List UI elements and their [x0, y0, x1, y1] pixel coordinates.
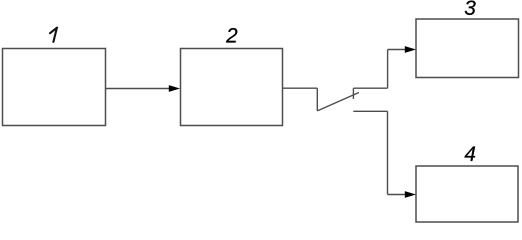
label 1: [50, 28, 57, 42]
arrowhead into block 4: [405, 191, 416, 198]
arrowhead into block 3: [405, 46, 416, 53]
wire: horizontal into block 4: [388, 194, 407, 196]
arrowhead into block 2: [169, 85, 180, 92]
wire: vertical drop to switch pivot: [316, 88, 318, 111]
switch blade: [317, 93, 359, 111]
svg-text:3: 3: [464, 0, 476, 20]
block 4: [416, 166, 518, 222]
switch top contact stub: [352, 88, 354, 99]
wire: horizontal into block 3: [388, 49, 406, 51]
svg-text:2: 2: [225, 24, 238, 47]
wire: block 2 output (pole feed): [283, 87, 318, 89]
svg-text:4: 4: [464, 143, 476, 166]
block 3: [416, 19, 519, 78]
wire: top contact horizontal: [353, 87, 387, 89]
wire: vertical up toward block 3: [387, 50, 389, 89]
wire: block 1 output to block 2: [106, 88, 171, 90]
block 2: [181, 49, 283, 126]
wire: lower contact horizontal: [353, 110, 387, 112]
wire: vertical down toward block 4: [387, 111, 389, 194]
block 1: [3, 49, 106, 126]
